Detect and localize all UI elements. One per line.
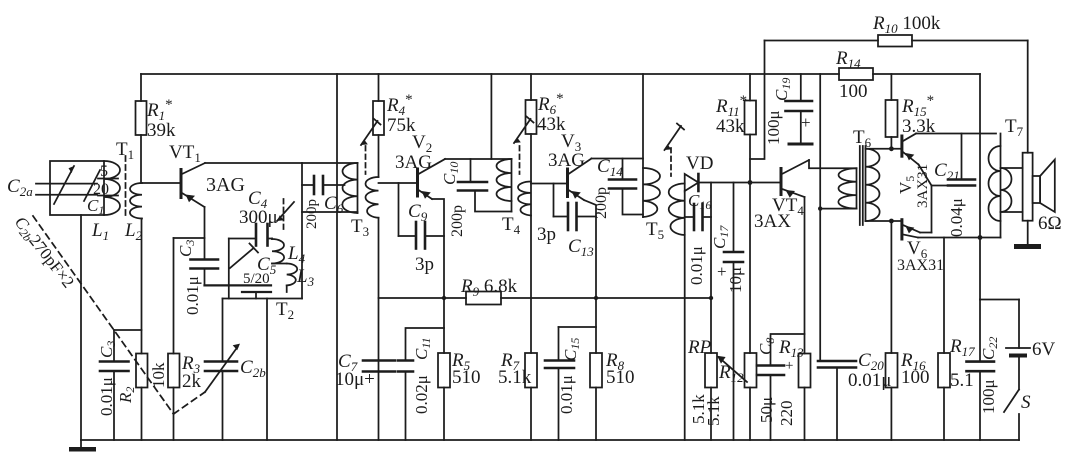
transistor V3 [568, 159, 592, 201]
core of T2 (dashed) with trimmer arrow [277, 199, 294, 233]
svg-text:43k: 43k [716, 116, 745, 137]
transistor V5 [902, 134, 932, 186]
wire: R10 feedback line y=40.5 [765, 40, 879, 42]
wire: battery feed from 979 down and right [979, 238, 981, 300]
svg-text:0.04μ: 0.04μ [947, 198, 966, 237]
wire: emitter branch to C4 (wire A) [229, 238, 256, 240]
wire: supply dropper through T6 primary bottom to C20 [819, 74, 821, 361]
svg-text:220: 220 [777, 401, 796, 427]
resistor R2 [136, 354, 148, 388]
capacitor C14 200p [609, 159, 643, 215]
svg-text:10k: 10k [149, 362, 168, 388]
wire: V3 emitter column [584, 200, 596, 353]
resistor R12 5.1k [745, 353, 757, 440]
svg-text:100: 100 [901, 367, 930, 388]
transistor V6 [902, 220, 932, 239]
capacitor C7 10u [363, 361, 395, 372]
resistor R9 6.8k [466, 292, 501, 305]
wire: V2 base wire [379, 182, 418, 184]
wire: detector output column to RP [710, 183, 712, 354]
svg-text:39k: 39k [147, 120, 176, 141]
wire: R6 column through T4 secondary down to R7 [530, 134, 532, 353]
wire: emitter jog to C8 [771, 334, 805, 366]
transformer T7 primary [989, 134, 1001, 238]
svg-text:10μ+: 10μ+ [335, 369, 375, 390]
capacitor C19 100u [786, 74, 813, 144]
capacitor C21 0.04u [932, 134, 976, 233]
svg-text:3AX31: 3AX31 [897, 257, 944, 274]
svg-text:3AX: 3AX [754, 211, 791, 232]
svg-text:2k: 2k [182, 371, 202, 392]
capacitor C11 0.02u [398, 328, 444, 440]
svg-text:200p: 200p [449, 205, 466, 237]
wire: V2 emitter column [432, 199, 444, 353]
capacitor C17 10u [724, 183, 743, 441]
svg-text:50μ: 50μ [757, 397, 776, 423]
wire: L2 top / R1 bottom / VT1 base node [141, 135, 181, 183]
svg-text:+: + [717, 262, 727, 281]
svg-text:3AG: 3AG [548, 150, 585, 171]
svg-text:6V: 6V [1032, 339, 1056, 360]
wire: right end of supply bus down to V6 collector [979, 74, 981, 238]
capacitor C4 300u [256, 224, 272, 246]
coil L3 [287, 264, 298, 293]
core of T1 (dashed) [125, 156, 127, 216]
svg-text:+: + [785, 358, 793, 374]
svg-text:510: 510 [452, 367, 481, 388]
svg-text:3p: 3p [537, 224, 556, 245]
wire: antenna frame to ground bus [80, 215, 82, 440]
svg-text:100: 100 [839, 81, 868, 102]
junction: supply at V6 collector line [978, 235, 983, 240]
transistor V2 [418, 159, 446, 199]
dashed gang coupling line C2a-C2b [33, 216, 205, 414]
wire: V6 collector line to T7 primary bottom [918, 237, 1001, 239]
svg-text:0.01μ: 0.01μ [687, 246, 706, 285]
svg-text:3AG: 3AG [395, 152, 432, 173]
wire: V5 collector to T7 [916, 133, 996, 135]
junction: V6 base node [889, 219, 894, 224]
variable capacitor C2a with frame box [36, 161, 104, 215]
wire: R10 left end down to base node [750, 41, 765, 160]
svg-text:5.1: 5.1 [950, 370, 974, 391]
capacitor C20 0.01u [818, 361, 856, 440]
wire: supply dropper to T5 primary [642, 74, 644, 217]
coil L2 [130, 183, 142, 219]
svg-text:200p: 200p [593, 187, 610, 219]
capacitor C3 (left, 0.01u) [100, 330, 142, 440]
core of T4 (dashed) with trimmer arrow [514, 117, 534, 175]
wire: VT1 collector rail [205, 162, 302, 164]
transformer T5 secondary [669, 184, 685, 441]
capacitor C22 100u [967, 300, 995, 441]
wire: bottom ground bus [81, 439, 1019, 441]
wire: emitter jog to C15/R7 [559, 326, 597, 328]
coil L1 (antenna winding with taps 5/20) [98, 161, 120, 215]
core of T6 (double line) [860, 146, 863, 225]
wire: top supply bus y=74 [141, 73, 839, 75]
svg-text:S: S [1021, 392, 1031, 413]
battery 6V [1006, 300, 1030, 390]
coil L4 [272, 239, 287, 264]
svg-text:10μ: 10μ [726, 267, 745, 293]
wire: supply dropper to V2 collector / T4 primary [490, 74, 492, 159]
resistor R6 [526, 74, 537, 134]
junction: VT4 base node [748, 180, 753, 185]
junction: T6 primary bottom [818, 206, 822, 210]
svg-text:3p: 3p [415, 254, 434, 275]
svg-text:200p: 200p [304, 199, 320, 229]
capacitor C3 (emitter, 0.01u) [191, 260, 219, 286]
svg-text:100μ: 100μ [979, 379, 998, 414]
transistor VT1 [181, 163, 205, 207]
resistor R14 [839, 68, 873, 80]
wire: R9 rail [379, 297, 467, 299]
junction: rail at V2 emitter [442, 296, 446, 300]
ground [69, 440, 96, 452]
wire: V2 collector rail to T4 [445, 158, 512, 160]
svg-text:R10 100k: R10 100k [872, 13, 941, 36]
transformer T4 secondary [518, 182, 531, 216]
wire: V5 base wire [866, 148, 902, 150]
transformer T3 primary [302, 163, 358, 213]
capacitor C15 0.01u [545, 327, 574, 440]
svg-text:R9 6.8k: R9 6.8k [460, 276, 518, 299]
switch S [1004, 390, 1019, 441]
wire: V3 base wire [531, 183, 568, 185]
resistor R10 [878, 35, 912, 47]
core of T5 (dashed) with trimmer arrow [665, 124, 685, 177]
svg-text:+: + [801, 113, 811, 132]
svg-text:5.1k: 5.1k [704, 396, 723, 426]
wire: V6 base node down to R16 [890, 221, 892, 353]
variable capacitor C2b [205, 299, 240, 441]
svg-text:VD: VD [686, 153, 713, 174]
resistor R17 5.1 [938, 238, 950, 441]
wire: R2 bottom to bus [141, 388, 143, 441]
wire: V3 collector rail to T5 [592, 158, 644, 160]
transformer T5 primary [643, 168, 660, 217]
svg-text:0.01μ: 0.01μ [848, 370, 891, 391]
wire: R11 bottom to VT4 base node and down to R12 [749, 135, 751, 354]
transformer T6 primary [820, 168, 856, 208]
speaker 6 ohm [1014, 41, 1055, 250]
svg-text:510: 510 [606, 367, 635, 388]
svg-text:RP: RP [687, 337, 712, 358]
capacitor C13 3p [554, 184, 597, 231]
transformer T3 secondary [366, 177, 379, 218]
wire: T2 bottom to ground bus [266, 299, 268, 441]
transformer T4 primary [497, 159, 512, 212]
core of T3 (dashed) with trimmer arrow [361, 119, 381, 175]
wire: R16 column [886, 353, 898, 440]
wire: VT1 collector vertical to oscillator tank [301, 163, 303, 299]
svg-text:3AX31: 3AX31 [915, 164, 931, 208]
svg-text:5/20: 5/20 [243, 271, 270, 287]
junction: rail at detector column [709, 296, 713, 300]
resistor R11 43k [745, 74, 757, 135]
resistor R8 510 [590, 353, 602, 440]
junction: rail at V3 emitter [594, 296, 598, 300]
resistor R4 [373, 74, 384, 177]
potentiometer RP 5.1k [705, 353, 747, 440]
svg-text:0.01μ: 0.01μ [183, 276, 202, 315]
resistor R5 510 [438, 353, 450, 440]
transformer T7 secondary [1001, 168, 1023, 212]
wire: VT4 collector to T6 primary top [809, 160, 857, 168]
capacitor C6 200p [302, 176, 345, 194]
capacitor C10 200p [458, 159, 512, 212]
capacitor C9 3p [399, 183, 445, 249]
svg-text:5: 5 [100, 163, 108, 180]
junction: V5 base node [889, 146, 894, 151]
svg-text:3AG: 3AG [206, 174, 245, 196]
resistor R15 3.3k [886, 74, 898, 149]
svg-text:0.01μ: 0.01μ [97, 377, 116, 416]
svg-text:0.01μ: 0.01μ [557, 375, 576, 414]
wire: L2 bottom down to R2 [141, 219, 143, 354]
resistor R13 220 [799, 354, 811, 441]
svg-text:5.1k: 5.1k [498, 367, 532, 388]
resistor R7 5.1k [525, 353, 537, 440]
resistor R1 [136, 74, 147, 135]
resistor R3 [168, 238, 205, 440]
svg-text:6Ω: 6Ω [1038, 213, 1062, 234]
wire: VT4 base wire [750, 182, 781, 184]
wire: V6 base wire [866, 220, 902, 222]
transformer T6 secondary [866, 146, 880, 221]
capacitor C16 0.01u [685, 204, 711, 230]
trimmer capacitor C5 5/20 [205, 244, 272, 299]
wire: T3 secondary bottom column through R9 rail to bus [378, 218, 380, 440]
capacitor C8 50u [757, 366, 784, 441]
diode VD [685, 174, 750, 191]
wire: branch left edge down to tank bottom [228, 239, 230, 299]
wire: tank bottom wire [223, 298, 303, 300]
wire: VT4 emitter column [804, 197, 806, 354]
transistor VT4 [781, 160, 809, 198]
wire: long vertical from supply bus left of T3 [336, 74, 338, 440]
svg-text:3.3k: 3.3k [902, 116, 936, 137]
wire: VT1 emitter column [204, 207, 206, 260]
svg-text:0.02μ: 0.02μ [412, 375, 431, 414]
svg-text:100μ: 100μ [764, 110, 783, 145]
svg-text:300μ: 300μ [239, 207, 278, 228]
